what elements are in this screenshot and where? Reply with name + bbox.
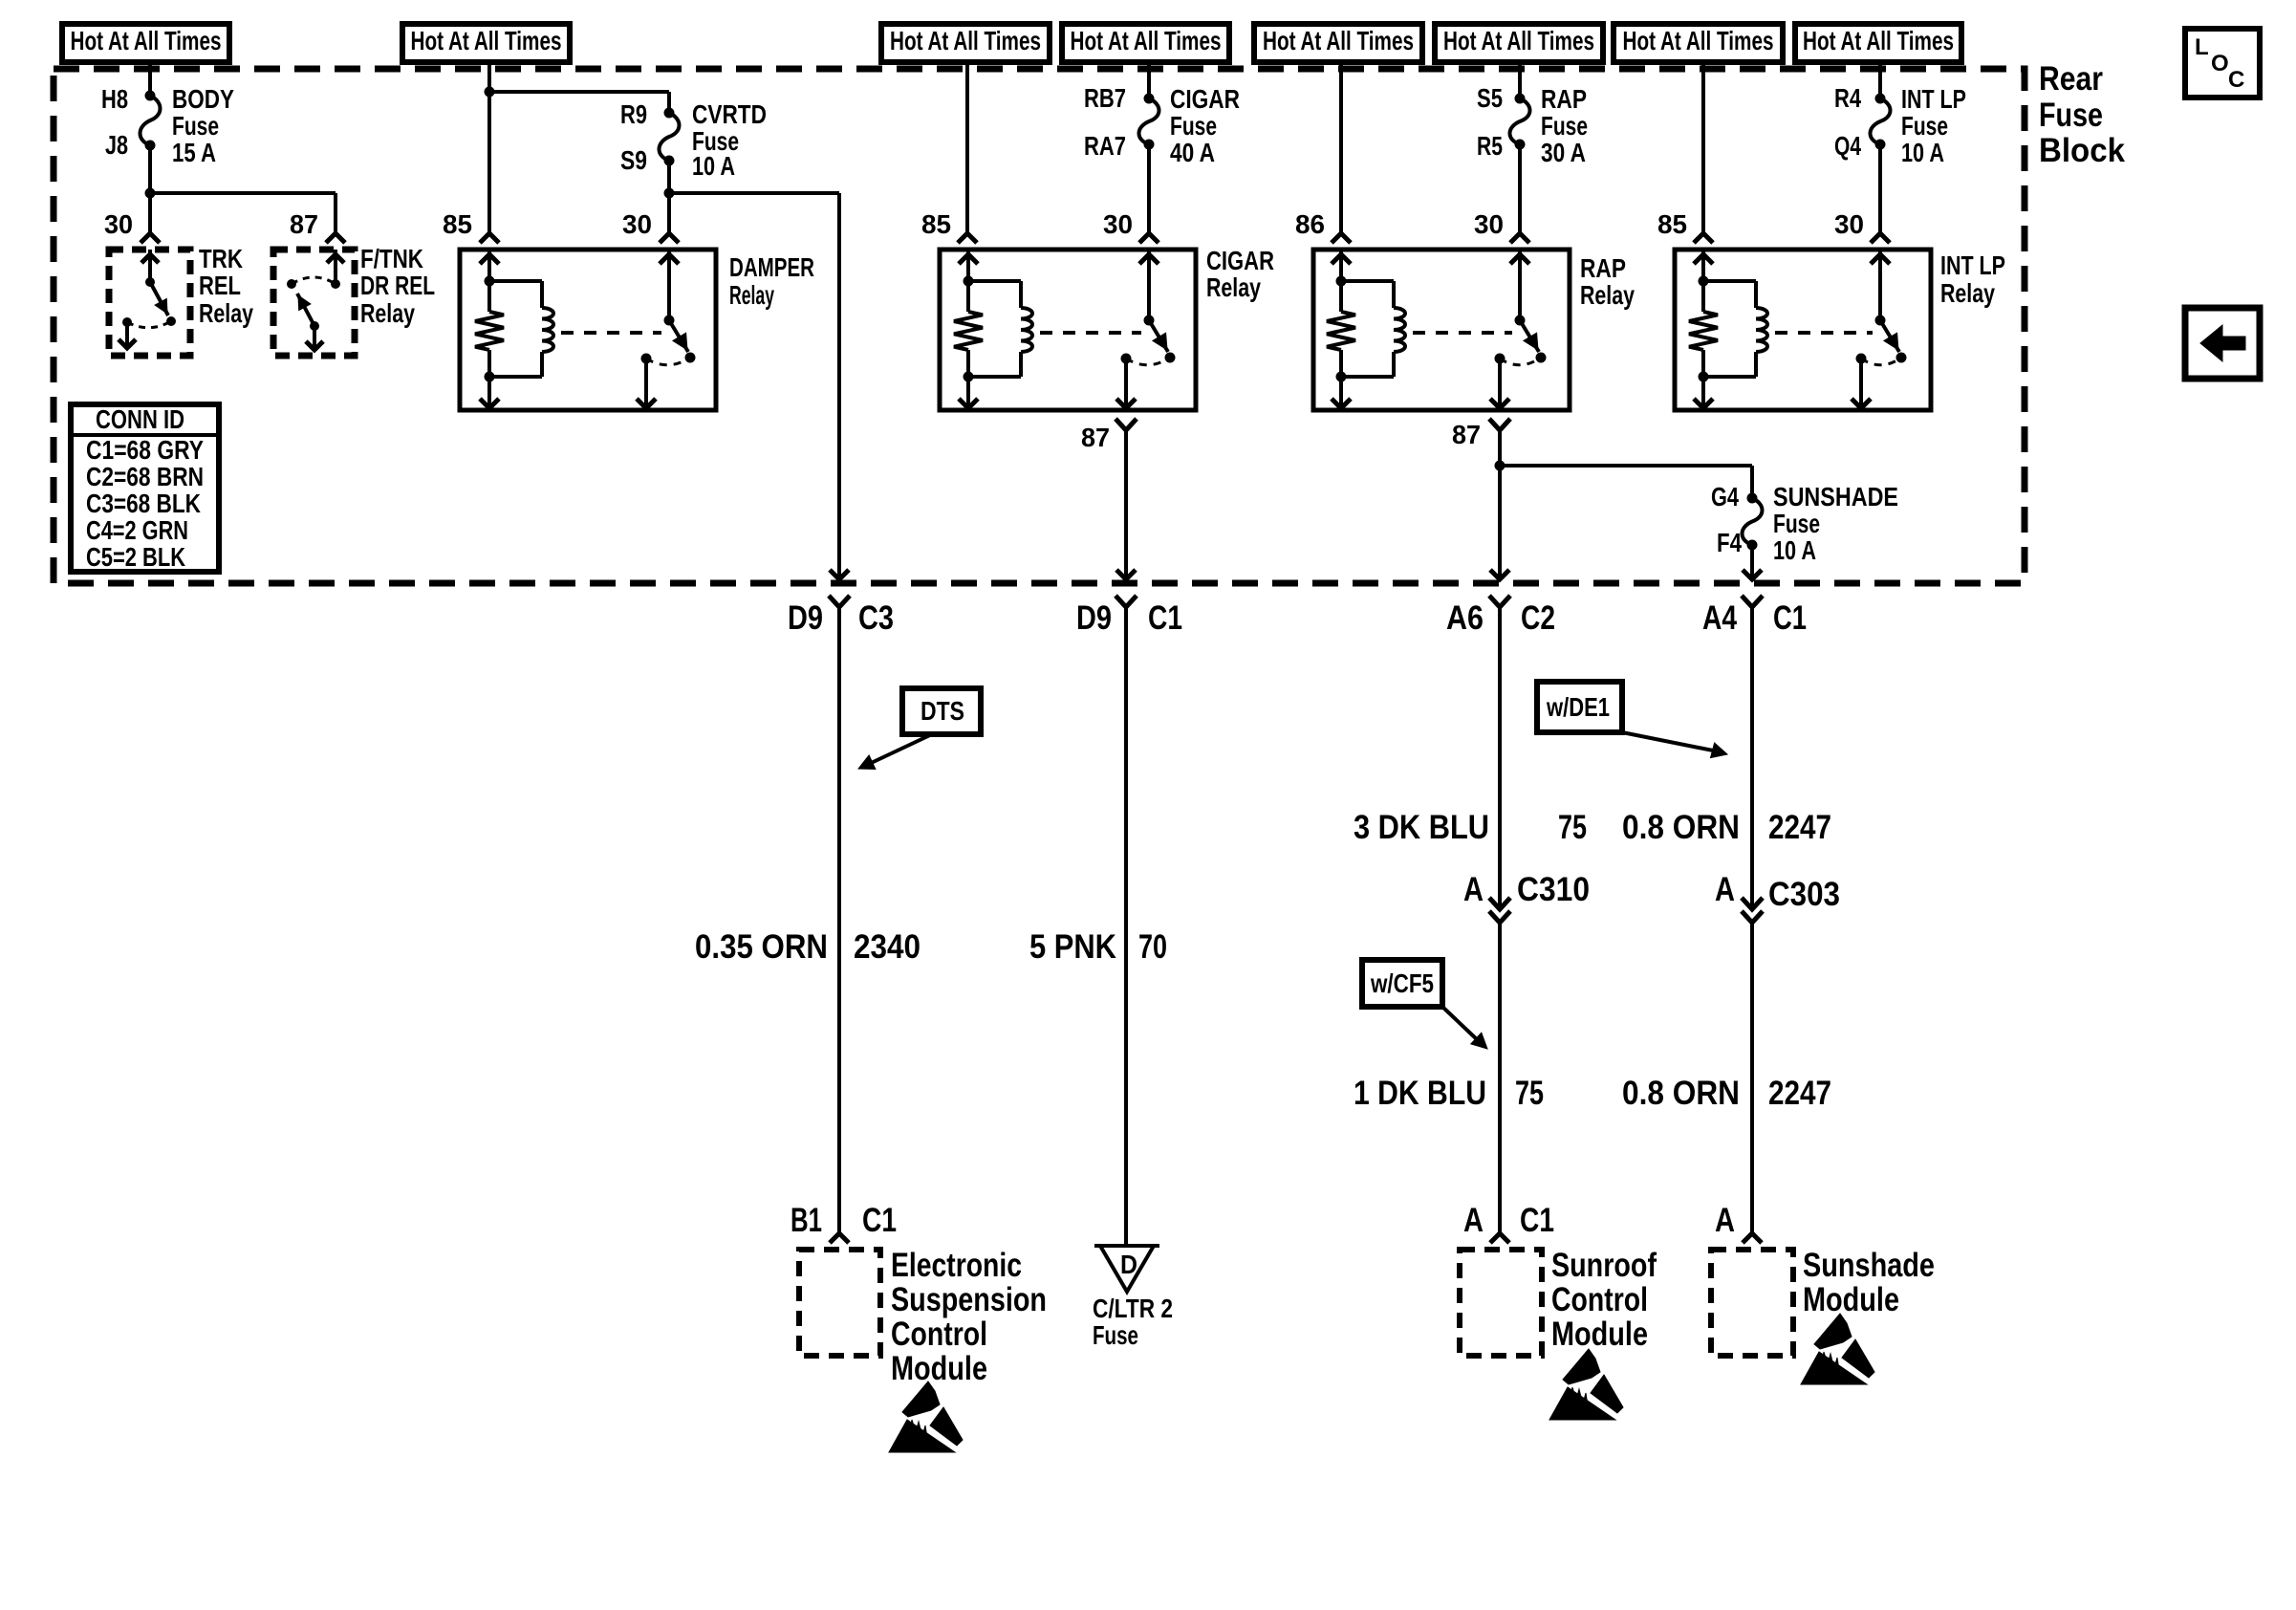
SUNSHADE fuse pin labels G4 F4 bbox=[1711, 482, 1742, 557]
svg-text:DAMPER: DAMPER bbox=[729, 252, 814, 282]
svg-text:2247: 2247 bbox=[1768, 809, 1831, 846]
svg-text:REL: REL bbox=[199, 271, 241, 300]
wire from Hot box 5 to RAP relay pin 86 bbox=[1339, 62, 1343, 233]
svg-text:30: 30 bbox=[622, 209, 652, 239]
relay INT LP switch bbox=[1852, 250, 1907, 408]
fuse RAP 30A (S5/R5) bbox=[1510, 94, 1530, 150]
relay RAP box bbox=[1313, 250, 1570, 410]
relay INT LP resistor bbox=[1689, 281, 1718, 377]
svg-text:Hot At All Times: Hot At All Times bbox=[71, 26, 222, 55]
wire 0.8 ORN 2247 lower bbox=[1750, 923, 1754, 1233]
svg-text:C1=68 GRY: C1=68 GRY bbox=[86, 435, 204, 465]
terminal 30 at INT LP relay bbox=[1834, 209, 1890, 243]
svg-text:30 A: 30 A bbox=[1541, 138, 1586, 167]
Sunshade Module name bbox=[1803, 1247, 1935, 1318]
wire RAP 87 down to connector A6/C2 bbox=[1490, 430, 1509, 579]
svg-text:Hot At All Times: Hot At All Times bbox=[1071, 26, 1222, 55]
svg-text:Relay: Relay bbox=[199, 298, 253, 328]
svg-text:Hot At All Times: Hot At All Times bbox=[411, 26, 562, 55]
svg-text:5 PNK: 5 PNK bbox=[1029, 928, 1116, 966]
svg-text:Fuse: Fuse bbox=[1541, 111, 1588, 141]
svg-text:0.8 ORN: 0.8 ORN bbox=[1622, 1075, 1740, 1112]
svg-text:CIGAR: CIGAR bbox=[1206, 246, 1274, 275]
connector A4/C1 exit bbox=[1702, 596, 1807, 637]
svg-text:2247: 2247 bbox=[1768, 1075, 1831, 1112]
relay RAP resistor bbox=[1327, 281, 1355, 377]
LOC reference box bbox=[2185, 29, 2260, 98]
svg-text:Relay: Relay bbox=[1940, 278, 1995, 308]
power feed label box "Hot At All Times" #8 bbox=[1795, 24, 1961, 62]
svg-text:SUNSHADE: SUNSHADE bbox=[1773, 482, 1898, 511]
terminal B1 at Electronic Suspension Control Module bbox=[791, 1202, 897, 1243]
fuse INT LP 10A (R4/Q4) bbox=[1871, 94, 1891, 150]
fuse SUNSHADE 10A (G4/F4) bbox=[1743, 493, 1763, 551]
relay RAP actuator dashed link bbox=[1413, 331, 1512, 335]
svg-text:C310: C310 bbox=[1517, 871, 1590, 908]
left arrow navigation box bbox=[2185, 308, 2260, 379]
svg-text:75: 75 bbox=[1558, 809, 1587, 846]
svg-text:Hot At All Times: Hot At All Times bbox=[1623, 26, 1774, 55]
svg-text:C: C bbox=[2228, 67, 2244, 93]
terminal 30 at RAP relay bbox=[1474, 209, 1529, 243]
ESD sensitivity symbol (Sunshade module) bbox=[1801, 1314, 1874, 1384]
wire from Hot box 6 to RAP fuse bbox=[1518, 62, 1522, 98]
svg-text:A: A bbox=[1463, 1202, 1484, 1239]
label 3 DK BLU 75 bbox=[1354, 809, 1587, 846]
svg-text:Fuse: Fuse bbox=[2039, 97, 2103, 134]
svg-text:30: 30 bbox=[104, 209, 133, 239]
in-line connector A / C303 bbox=[1715, 871, 1840, 923]
svg-text:Q4: Q4 bbox=[1834, 131, 1861, 161]
svg-text:RB7: RB7 bbox=[1084, 83, 1126, 113]
wire branch from CVRTD fuse to connector D9/C3 bbox=[669, 193, 849, 579]
connector A6/C2 exit bbox=[1446, 596, 1555, 637]
svg-text:w/CF5: w/CF5 bbox=[1370, 968, 1434, 998]
svg-text:J8: J8 bbox=[105, 130, 128, 160]
svg-text:Suspension: Suspension bbox=[891, 1281, 1047, 1318]
svg-text:INT LP: INT LP bbox=[1901, 84, 1966, 114]
C/LTR 2 Fuse label bbox=[1093, 1294, 1173, 1350]
svg-text:DTS: DTS bbox=[921, 696, 964, 726]
wire BODY fuse down to TRK REL relay pin 30 bbox=[145, 145, 156, 233]
wire SUNSHADE fuse down to connector A4/C1 bbox=[1743, 545, 1762, 579]
svg-text:BODY: BODY bbox=[172, 84, 234, 114]
power feed label box "Hot At All Times" #2 bbox=[402, 24, 570, 62]
relay RAP name bbox=[1580, 253, 1635, 310]
relay TRK REL dashed box bbox=[109, 250, 190, 356]
svg-text:Rear: Rear bbox=[2039, 60, 2103, 98]
power feed label box "Hot At All Times" #6 bbox=[1435, 24, 1603, 62]
callout w/DE1 bbox=[1537, 682, 1727, 758]
wire INT LP fuse to INT LP relay pin 30 bbox=[1878, 144, 1882, 233]
fuse CVRTD 10A (R9/S9) bbox=[660, 108, 680, 166]
svg-text:C2: C2 bbox=[1521, 599, 1555, 637]
Electronic Suspension Control Module dashed box bbox=[799, 1250, 880, 1356]
CVRTD fuse pin labels R9 S9 bbox=[620, 99, 647, 175]
relay CIGAR switch bbox=[1116, 250, 1176, 408]
power feed label box "Hot At All Times" #3 bbox=[881, 24, 1050, 62]
wire RAP fuse to RAP relay pin 30 bbox=[1518, 144, 1522, 233]
relay DAMPER name bbox=[729, 252, 814, 310]
power feed label box "Hot At All Times" #7 bbox=[1614, 24, 1783, 62]
wire 0.35 ORN 2340 bbox=[837, 607, 841, 1233]
relay F/TNK DR REL name bbox=[360, 244, 435, 328]
relay F/TNK DR REL switch bbox=[287, 250, 344, 350]
svg-text:D9: D9 bbox=[1076, 599, 1112, 637]
terminal 87 at F/TNK DR REL relay bbox=[290, 209, 345, 243]
CIGAR fuse pin labels RB7 RA7 bbox=[1084, 83, 1126, 161]
svg-text:70: 70 bbox=[1138, 928, 1167, 966]
relay CIGAR resistor bbox=[954, 281, 983, 377]
svg-text:D: D bbox=[1120, 1250, 1137, 1279]
relay RAP coil branch bbox=[1332, 250, 1405, 408]
svg-text:C4=2 GRN: C4=2 GRN bbox=[86, 515, 188, 545]
RAP fuse name label bbox=[1541, 84, 1588, 167]
in-line connector A / C310 bbox=[1463, 871, 1590, 923]
svg-text:Relay: Relay bbox=[360, 298, 415, 328]
wire CIGAR fuse to CIGAR relay pin 30 bbox=[1147, 144, 1151, 233]
INT LP fuse name label bbox=[1901, 84, 1966, 167]
relay CIGAR box bbox=[940, 250, 1196, 410]
label 1 DK BLU 75 bbox=[1354, 1075, 1544, 1112]
wire CVRTD fuse to DAMPER relay pin 30 bbox=[664, 161, 675, 233]
svg-text:H8: H8 bbox=[101, 84, 128, 114]
Sunroof Control Module name bbox=[1551, 1247, 1657, 1353]
relay CIGAR coil branch bbox=[959, 250, 1032, 408]
relay INT LP name bbox=[1940, 250, 2005, 308]
svg-text:Electronic: Electronic bbox=[891, 1247, 1022, 1284]
svg-text:10 A: 10 A bbox=[1773, 535, 1816, 565]
wire from Hot box 3 to CIGAR relay pin 85 bbox=[965, 62, 969, 233]
svg-text:Control: Control bbox=[1551, 1281, 1648, 1318]
relay DAMPER switch bbox=[637, 250, 696, 408]
relay TRK REL switch bbox=[119, 250, 176, 348]
wire 0.8 ORN 2247 upper bbox=[1750, 607, 1754, 908]
relay DAMPER box bbox=[460, 250, 716, 410]
Sunshade Module dashed box bbox=[1711, 1250, 1793, 1356]
svg-text:INT LP: INT LP bbox=[1940, 250, 2005, 280]
svg-text:87: 87 bbox=[290, 209, 318, 239]
svg-text:Fuse: Fuse bbox=[1773, 509, 1820, 538]
wire from Hot box 8 to INT LP fuse bbox=[1878, 62, 1882, 98]
terminal 30 at DAMPER relay bbox=[622, 209, 679, 243]
svg-text:C1: C1 bbox=[862, 1202, 897, 1239]
svg-text:Control: Control bbox=[891, 1316, 987, 1353]
svg-text:L: L bbox=[2195, 34, 2209, 60]
svg-text:87: 87 bbox=[1081, 423, 1110, 452]
svg-text:Hot At All Times: Hot At All Times bbox=[890, 26, 1041, 55]
svg-text:0.8 ORN: 0.8 ORN bbox=[1622, 809, 1740, 846]
relay DAMPER actuator dashed link bbox=[561, 331, 661, 335]
svg-text:0.35 ORN: 0.35 ORN bbox=[695, 928, 828, 966]
svg-text:TRK: TRK bbox=[199, 244, 243, 273]
svg-text:F4: F4 bbox=[1717, 528, 1742, 557]
power feed label box "Hot At All Times" #5 bbox=[1254, 24, 1422, 62]
svg-text:10 A: 10 A bbox=[1901, 138, 1944, 167]
svg-text:Relay: Relay bbox=[729, 280, 774, 310]
svg-text:w/DE1: w/DE1 bbox=[1546, 692, 1610, 722]
svg-text:S9: S9 bbox=[620, 145, 647, 175]
svg-text:Fuse: Fuse bbox=[172, 111, 219, 141]
terminal 85 at DAMPER relay bbox=[443, 209, 499, 243]
fuse BODY 15A (H8/J8) bbox=[141, 91, 161, 151]
svg-text:CONN ID: CONN ID bbox=[96, 404, 184, 434]
fuse CIGAR 40A (RB7/RA7) bbox=[1139, 94, 1159, 150]
relay CIGAR actuator dashed link bbox=[1040, 331, 1141, 335]
svg-text:15 A: 15 A bbox=[172, 138, 216, 167]
label 0.8 ORN 2247 lower bbox=[1622, 1075, 1831, 1112]
svg-text:C1: C1 bbox=[1773, 599, 1807, 637]
relay INT LP actuator dashed link bbox=[1775, 331, 1873, 335]
CVRTD fuse name label bbox=[692, 99, 767, 181]
svg-text:Sunshade: Sunshade bbox=[1803, 1247, 1935, 1284]
svg-text:1 DK BLU: 1 DK BLU bbox=[1354, 1075, 1486, 1112]
svg-text:C/LTR 2: C/LTR 2 bbox=[1093, 1294, 1173, 1323]
svg-text:R9: R9 bbox=[620, 99, 647, 129]
wire from Hot box 2 to DAMPER relay pin 85 bbox=[485, 62, 495, 233]
svg-text:C2=68 BRN: C2=68 BRN bbox=[86, 462, 204, 491]
svg-text:Sunroof: Sunroof bbox=[1551, 1247, 1657, 1284]
svg-text:86: 86 bbox=[1295, 209, 1325, 239]
ESD sensitivity symbol (Sunroof module) bbox=[1549, 1349, 1623, 1420]
relay DAMPER resistor bbox=[475, 281, 504, 377]
svg-text:D9: D9 bbox=[788, 599, 823, 637]
terminal 87 below CIGAR relay bbox=[1081, 419, 1137, 452]
connector D9/C3 exit bbox=[788, 596, 894, 637]
INT LP fuse pin labels R4 Q4 bbox=[1834, 83, 1861, 161]
svg-text:30: 30 bbox=[1834, 209, 1864, 239]
wire from Hot box 1 to BODY fuse bbox=[148, 62, 152, 96]
svg-text:Relay: Relay bbox=[1206, 272, 1261, 302]
svg-text:R4: R4 bbox=[1834, 83, 1861, 113]
terminal 86 at RAP relay bbox=[1295, 209, 1351, 243]
label 0.35 ORN 2340 bbox=[695, 928, 921, 966]
svg-text:Fuse: Fuse bbox=[1093, 1320, 1138, 1350]
svg-text:2340: 2340 bbox=[854, 928, 921, 966]
terminal 87 below RAP relay bbox=[1452, 419, 1510, 449]
svg-text:RAP: RAP bbox=[1580, 253, 1626, 283]
svg-text:30: 30 bbox=[1103, 209, 1133, 239]
svg-text:Fuse: Fuse bbox=[1170, 111, 1217, 141]
terminal 30 at TRK REL relay bbox=[104, 209, 160, 243]
terminal A at Sunroof Control Module bbox=[1463, 1202, 1554, 1243]
Sunroof Control Module dashed box bbox=[1460, 1250, 1542, 1356]
wire 3 DK BLU 75 bbox=[1498, 607, 1502, 908]
wire CIGAR 87 to connector D9/C1 bbox=[1116, 430, 1136, 579]
svg-text:Relay: Relay bbox=[1580, 280, 1635, 310]
svg-text:CVRTD: CVRTD bbox=[692, 99, 767, 129]
CONN ID table bbox=[71, 404, 219, 572]
svg-text:40 A: 40 A bbox=[1170, 138, 1215, 167]
CIGAR fuse name label bbox=[1170, 84, 1240, 167]
svg-text:Module: Module bbox=[1803, 1281, 1899, 1318]
relay CIGAR name bbox=[1206, 246, 1274, 302]
RAP fuse pin labels S5 R5 bbox=[1477, 83, 1503, 161]
wire 1 DK BLU 75 bbox=[1498, 923, 1502, 1233]
svg-text:C3: C3 bbox=[858, 599, 894, 637]
svg-text:Hot At All Times: Hot At All Times bbox=[1443, 26, 1594, 55]
svg-text:G4: G4 bbox=[1711, 482, 1739, 511]
svg-text:Block: Block bbox=[2039, 132, 2126, 169]
svg-text:85: 85 bbox=[1657, 209, 1687, 239]
Electronic Suspension Control Module name bbox=[891, 1247, 1047, 1387]
svg-text:O: O bbox=[2211, 51, 2229, 76]
Rear Fuse Block name bbox=[2039, 60, 2126, 169]
svg-text:S5: S5 bbox=[1477, 83, 1503, 113]
callout w/CF5 bbox=[1362, 960, 1487, 1049]
svg-text:87: 87 bbox=[1452, 420, 1481, 449]
svg-text:Fuse: Fuse bbox=[1901, 111, 1948, 141]
svg-text:Module: Module bbox=[891, 1350, 987, 1387]
BODY fuse pin labels H8 J8 bbox=[101, 84, 128, 160]
relay F/TNK DR REL dashed box bbox=[273, 250, 355, 356]
wire from Hot box 7 to INT LP relay pin 85 bbox=[1701, 62, 1705, 233]
svg-text:RA7: RA7 bbox=[1084, 131, 1126, 161]
svg-text:3 DK BLU: 3 DK BLU bbox=[1354, 809, 1489, 846]
wire branch RAP 87 to SUNSHADE fuse bbox=[1500, 466, 1752, 498]
svg-text:A6: A6 bbox=[1446, 599, 1484, 637]
power feed label box "Hot At All Times" #1 bbox=[62, 24, 229, 62]
svg-text:85: 85 bbox=[443, 209, 472, 239]
wire branch to F/TNK DR REL relay pin 87 bbox=[150, 193, 336, 233]
svg-text:Hot At All Times: Hot At All Times bbox=[1263, 26, 1414, 55]
svg-text:C1: C1 bbox=[1520, 1202, 1554, 1239]
wire branch to CVRTD fuse bbox=[489, 92, 669, 113]
relay INT LP box bbox=[1675, 250, 1931, 410]
svg-text:C1: C1 bbox=[1148, 599, 1182, 637]
wire 5 PNK 70 bbox=[1124, 607, 1128, 1246]
power feed label box "Hot At All Times" #4 bbox=[1062, 24, 1229, 62]
Rear Fuse Block dashed boundary bbox=[54, 69, 2025, 583]
terminal A at Sunshade Module bbox=[1715, 1202, 1762, 1243]
relay TRK REL name bbox=[199, 244, 253, 328]
svg-text:CIGAR: CIGAR bbox=[1170, 84, 1240, 114]
svg-text:DR REL: DR REL bbox=[360, 271, 435, 300]
svg-text:85: 85 bbox=[921, 209, 951, 239]
BODY fuse name label bbox=[172, 84, 234, 167]
terminal 30 at CIGAR relay bbox=[1103, 209, 1159, 243]
svg-text:C5=2 BLK: C5=2 BLK bbox=[86, 542, 185, 572]
relay DAMPER coil branch bbox=[480, 250, 553, 408]
callout DTS bbox=[858, 688, 981, 770]
SUNSHADE fuse name label bbox=[1773, 482, 1898, 565]
svg-text:30: 30 bbox=[1474, 209, 1504, 239]
label 5 PNK 70 bbox=[1029, 928, 1167, 966]
svg-text:C3=68 BLK: C3=68 BLK bbox=[86, 489, 201, 518]
svg-text:10 A: 10 A bbox=[692, 151, 735, 181]
terminal 85 at CIGAR relay bbox=[921, 209, 977, 243]
svg-text:RAP: RAP bbox=[1541, 84, 1587, 114]
svg-text:Module: Module bbox=[1551, 1316, 1648, 1353]
relay INT LP coil branch bbox=[1694, 250, 1767, 408]
fuse symbol C/LTR 2 (triangle D) bbox=[1094, 1246, 1159, 1292]
svg-text:A4: A4 bbox=[1702, 599, 1737, 637]
svg-text:A: A bbox=[1715, 1202, 1735, 1239]
wire from Hot box 4 to CIGAR fuse bbox=[1147, 62, 1151, 98]
ESD sensitivity symbol (ESC module) bbox=[889, 1382, 963, 1452]
svg-text:75: 75 bbox=[1515, 1075, 1544, 1112]
connector D9/C1 exit bbox=[1076, 596, 1182, 637]
svg-text:R5: R5 bbox=[1477, 131, 1503, 161]
svg-text:Hot At All Times: Hot At All Times bbox=[1803, 26, 1954, 55]
svg-text:F/TNK: F/TNK bbox=[360, 244, 423, 273]
terminal 85 at INT LP relay bbox=[1657, 209, 1713, 243]
relay RAP switch bbox=[1490, 250, 1547, 408]
svg-text:B1: B1 bbox=[791, 1202, 822, 1239]
svg-text:C303: C303 bbox=[1768, 876, 1840, 913]
label 0.8 ORN 2247 upper bbox=[1622, 809, 1831, 846]
svg-text:A: A bbox=[1715, 871, 1735, 908]
svg-text:A: A bbox=[1463, 871, 1484, 908]
